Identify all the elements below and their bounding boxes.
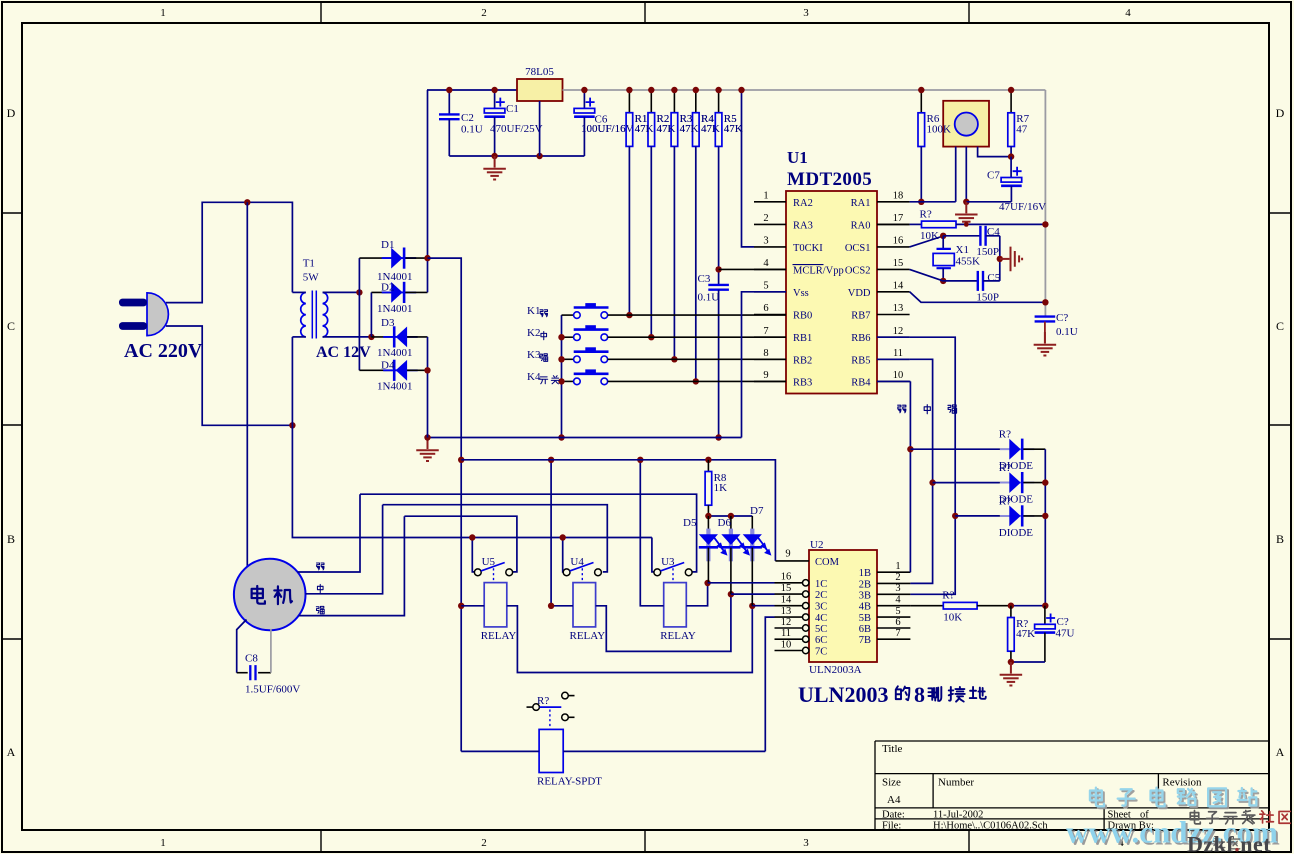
motor 电机 xyxy=(234,559,306,631)
resonator X1 455K xyxy=(937,249,951,268)
capacitor C1 xyxy=(484,98,505,117)
svg-text:47K: 47K xyxy=(657,123,676,135)
wire X1 bottom xyxy=(942,268,944,281)
wire RB5 to 2B xyxy=(910,359,933,583)
wire OCS2 diagonal xyxy=(910,269,944,281)
junction xyxy=(693,87,699,93)
svg-text:VDD: VDD xyxy=(848,288,871,299)
svg-text:K2: K2 xyxy=(527,327,540,339)
wire 78L05 gnd pin xyxy=(539,101,541,156)
svg-text:B: B xyxy=(1276,532,1284,546)
svg-text:6B: 6B xyxy=(859,624,871,635)
svg-text:470UF/25V: 470UF/25V xyxy=(490,123,543,135)
wire D4 cathode xyxy=(359,369,392,371)
wire supply ground rail xyxy=(449,155,584,157)
switch K4 pushbutton xyxy=(562,369,609,384)
capacitor C2 xyxy=(439,114,460,119)
junction xyxy=(424,434,430,440)
capacitor C? 0.1U xyxy=(1035,317,1056,322)
regulator 78L05 xyxy=(517,79,563,101)
U2 pin 7 7B xyxy=(877,638,910,640)
wire D2 anode xyxy=(371,291,391,293)
svg-text:8: 8 xyxy=(763,348,768,359)
svg-text:C?: C? xyxy=(1057,616,1069,628)
switch K1 pushbutton xyxy=(562,303,609,318)
svg-text:Date:: Date: xyxy=(882,810,905,821)
junction xyxy=(558,334,564,340)
ground sensor xyxy=(955,202,978,226)
wire motor low speed xyxy=(298,494,361,572)
junction 3C xyxy=(749,603,755,609)
relay SPDT contact xyxy=(527,692,575,729)
svg-text:14: 14 xyxy=(893,280,904,291)
wire D3 anode xyxy=(407,336,427,338)
junction R2 K2 xyxy=(648,334,654,340)
svg-text:10: 10 xyxy=(893,370,904,381)
junction xyxy=(469,534,475,540)
svg-text:47K: 47K xyxy=(680,123,699,135)
svg-text:47K: 47K xyxy=(1016,628,1035,640)
svg-text:1K: 1K xyxy=(714,482,728,494)
svg-text:5: 5 xyxy=(763,280,768,291)
wire AC live xyxy=(166,202,292,302)
svg-text:5B: 5B xyxy=(859,613,871,624)
wire R3 to K3 row xyxy=(673,146,675,359)
wire AC neutral to contacts xyxy=(292,425,652,537)
relay U4 coil xyxy=(573,583,596,627)
diode D4 1N4001 xyxy=(383,360,418,381)
svg-text:Dzkf.net: Dzkf.net xyxy=(1187,832,1271,854)
svg-text:Title: Title xyxy=(882,743,903,755)
svg-text:RB6: RB6 xyxy=(851,333,870,344)
wire K switches common xyxy=(561,315,563,437)
svg-text:RELAY-SPDT: RELAY-SPDT xyxy=(537,776,602,788)
wire SPDT coil right xyxy=(563,750,765,752)
wire primary bottom down xyxy=(291,337,293,425)
wire bridge vertical A xyxy=(358,258,360,370)
junction xyxy=(581,87,587,93)
svg-text:3: 3 xyxy=(803,7,809,19)
svg-text:C5: C5 xyxy=(987,272,1000,284)
svg-text:ULN2003A: ULN2003A xyxy=(809,664,862,676)
svg-text:6: 6 xyxy=(895,617,900,628)
diode D3 1N4001 xyxy=(383,326,418,347)
wire +5V gray rail xyxy=(563,89,1046,91)
svg-text:47K: 47K xyxy=(724,123,743,135)
driver U2 ULN2003A body xyxy=(809,550,877,662)
wire C7 bottom xyxy=(1010,186,1012,202)
svg-text:11-Jul-2002: 11-Jul-2002 xyxy=(933,810,983,821)
svg-text:R?: R? xyxy=(942,590,954,602)
wire K2 to U1 pin 7 xyxy=(608,336,786,338)
wire U5 coil left xyxy=(461,605,484,607)
wire RB6 to 3B xyxy=(910,337,956,594)
wire VDD xyxy=(910,292,1046,303)
svg-text:C: C xyxy=(1276,319,1284,333)
U1 pin 5 Vss xyxy=(754,291,786,293)
ground oscillator xyxy=(1000,247,1022,272)
svg-text:RB4: RB4 xyxy=(851,377,871,388)
wire X1 top xyxy=(942,236,944,249)
junction secondary top xyxy=(356,289,362,295)
wire secondary bottom xyxy=(323,336,372,338)
svg-text:File:: File: xyxy=(882,821,901,832)
wire D7 cathode xyxy=(751,548,753,606)
junction xyxy=(705,513,711,519)
wire D1 anode xyxy=(359,257,391,259)
svg-text:0.1U: 0.1U xyxy=(1056,326,1078,338)
watermark dzkf xyxy=(1214,839,1240,849)
resistor R2 47K xyxy=(648,113,655,147)
wire 1C xyxy=(708,582,775,584)
resistor R8 1K xyxy=(705,472,712,506)
svg-text:OCS2: OCS2 xyxy=(845,265,871,276)
wire 3C xyxy=(752,605,774,607)
wire motor mid speed xyxy=(306,505,383,594)
title block xyxy=(875,741,1268,829)
wire 12V rail to COM xyxy=(461,460,775,561)
ground U2 bias xyxy=(1000,662,1023,686)
svg-text:47K: 47K xyxy=(635,123,654,135)
junction xyxy=(1008,87,1014,93)
svg-text:5W: 5W xyxy=(303,272,320,284)
svg-text:R?: R? xyxy=(999,462,1011,474)
connector AC plug xyxy=(119,293,168,336)
wire ground rail xyxy=(428,437,742,439)
wire R7 bottom xyxy=(1010,147,1012,157)
wire R4 top xyxy=(695,90,697,113)
wire 4B to R xyxy=(910,605,943,607)
wire osc caps common xyxy=(999,236,1001,281)
svg-text:15: 15 xyxy=(893,258,904,269)
svg-text:5: 5 xyxy=(895,606,900,617)
ground VDD cap xyxy=(1034,332,1057,356)
svg-text:47: 47 xyxy=(1016,123,1028,135)
resistor R? 10K base xyxy=(943,602,977,609)
svg-text:K4: K4 xyxy=(527,371,541,383)
capacitor C? 47U xyxy=(1035,614,1056,633)
U2 pin 11 6C xyxy=(775,638,803,640)
U1 pin 13 RB7 xyxy=(877,314,910,316)
svg-text:D7: D7 xyxy=(750,505,764,517)
svg-text:C3: C3 xyxy=(698,273,711,285)
svg-text:10: 10 xyxy=(781,639,792,650)
svg-text:1: 1 xyxy=(160,7,166,19)
svg-text:B: B xyxy=(7,532,15,546)
capacitor C5 150P xyxy=(978,271,983,291)
svg-text:OCS1: OCS1 xyxy=(845,243,871,254)
svg-text:D2: D2 xyxy=(381,282,394,294)
svg-text:ULN2003: ULN2003 xyxy=(798,682,888,707)
wire Vss to ground rail xyxy=(742,292,787,438)
svg-text:7C: 7C xyxy=(815,647,827,658)
svg-text:RB3: RB3 xyxy=(793,377,812,388)
junction xyxy=(560,534,566,540)
wire motor bottom gray xyxy=(270,629,272,673)
svg-text:U2: U2 xyxy=(810,539,823,551)
wire RA0 stub xyxy=(877,223,910,225)
svg-text:3: 3 xyxy=(803,837,809,849)
wire cap to ground xyxy=(1044,322,1046,344)
wire sensor out xyxy=(955,147,957,202)
junction xyxy=(715,434,721,440)
junction X1 bottom xyxy=(940,278,946,284)
svg-text:6C: 6C xyxy=(815,635,827,646)
svg-text:DIODE: DIODE xyxy=(999,527,1033,539)
wire RB5 stub xyxy=(877,358,910,360)
junction xyxy=(671,87,677,93)
svg-text:1N4001: 1N4001 xyxy=(377,303,412,315)
relay U5 contact xyxy=(474,563,512,583)
junction secondary bottom xyxy=(368,334,374,340)
junction R3 K3 xyxy=(671,356,677,362)
LED D6 xyxy=(721,529,748,562)
junction xyxy=(918,87,924,93)
switch K3 pushbutton xyxy=(562,347,609,362)
U1 pin 15 OCS2 xyxy=(877,268,910,270)
capacitor C7 47UF xyxy=(1001,167,1022,186)
wire 47U bottom xyxy=(1044,633,1046,662)
wire K4 to U1 pin 9 xyxy=(608,380,786,382)
U1 pin 12 RB6 xyxy=(877,336,910,338)
svg-text:1C: 1C xyxy=(815,579,827,590)
svg-text:RB5: RB5 xyxy=(851,355,870,366)
svg-text:RELAY: RELAY xyxy=(481,630,517,642)
wire T0CKI net xyxy=(742,90,755,247)
svg-text:RB7: RB7 xyxy=(851,311,870,322)
svg-text:2: 2 xyxy=(481,837,487,849)
junction xyxy=(637,457,643,463)
U2 pin 9 COM xyxy=(775,560,809,562)
svg-text:U5: U5 xyxy=(482,556,496,568)
wire high speed to U5 contact xyxy=(404,516,517,572)
junction xyxy=(446,87,452,93)
wire RB4 to 1B xyxy=(909,381,911,572)
wire R8 top xyxy=(707,460,709,472)
junction xyxy=(952,513,958,519)
wire 47K top xyxy=(1010,606,1012,618)
svg-text:1: 1 xyxy=(763,190,768,201)
svg-text:D5: D5 xyxy=(683,517,697,529)
svg-text:2C: 2C xyxy=(815,590,827,601)
wire AC live to motor xyxy=(246,202,248,566)
svg-text:1N4001: 1N4001 xyxy=(377,347,412,359)
svg-text:RB0: RB0 xyxy=(793,311,812,322)
U1 pin 14 VDD xyxy=(877,291,910,293)
U1 pin 18 RA1 xyxy=(877,201,910,203)
wire R5 to C3 xyxy=(718,146,720,285)
wire D6 cathode xyxy=(730,548,732,595)
svg-text:3: 3 xyxy=(895,583,900,594)
resistor R7 47 xyxy=(1008,113,1015,147)
capacitor C4 150P xyxy=(980,226,985,246)
wire diode row 3 xyxy=(955,515,999,517)
junction xyxy=(491,87,497,93)
wire 47U top xyxy=(1044,606,1046,625)
junction xyxy=(1008,153,1014,159)
wire R1 top xyxy=(628,90,630,113)
relay U3 coil xyxy=(664,583,687,627)
svg-text:R?: R? xyxy=(999,429,1011,441)
U2 pin 2 2B xyxy=(877,582,910,584)
svg-text:COM: COM xyxy=(815,557,840,568)
wire K1 to U1 pin 6 xyxy=(608,314,786,316)
junction xyxy=(1042,513,1048,519)
junction xyxy=(424,255,430,261)
svg-text:U1: U1 xyxy=(787,148,808,167)
svg-text:1: 1 xyxy=(160,837,166,849)
svg-text:MCLR/Vpp: MCLR/Vpp xyxy=(793,265,844,276)
wire sensor gnd xyxy=(965,147,967,202)
U1 pin 17 RA0 xyxy=(877,223,910,225)
wire D7 anode xyxy=(751,516,753,534)
svg-text:7B: 7B xyxy=(859,635,871,646)
svg-text:D6: D6 xyxy=(718,517,732,529)
U1 pin 1 RA2 xyxy=(754,201,786,203)
svg-text:R?: R? xyxy=(920,209,932,221)
junction xyxy=(458,457,464,463)
junction xyxy=(1042,299,1048,305)
svg-text:8: 8 xyxy=(914,682,925,707)
svg-text:12: 12 xyxy=(781,617,792,628)
wire D1 cathode xyxy=(405,257,427,259)
svg-text:100K: 100K xyxy=(927,123,952,135)
U2 pin 16 1C xyxy=(775,582,803,584)
svg-text:1: 1 xyxy=(895,561,900,572)
wire U4 coil left 12V xyxy=(551,460,573,606)
wire to C5 xyxy=(943,280,978,282)
resistor R6 100K xyxy=(918,113,925,147)
junction xyxy=(1008,603,1014,609)
svg-text:9: 9 xyxy=(763,370,768,381)
wire to C4 xyxy=(943,235,980,237)
resistor R1 47K xyxy=(626,113,633,147)
junction xyxy=(244,199,250,205)
junction xyxy=(548,457,554,463)
svg-text:11: 11 xyxy=(781,628,791,639)
svg-text:U4: U4 xyxy=(570,556,584,568)
U2 pin 4 4B xyxy=(877,605,910,607)
junction xyxy=(558,378,564,384)
diode R? flyback 3 xyxy=(1000,505,1035,526)
U2 pin 12 5C xyxy=(775,627,803,629)
wire U3 coil left 12V xyxy=(640,460,663,606)
svg-text:Size: Size xyxy=(882,777,901,789)
wire RB6 stub xyxy=(877,336,910,338)
svg-text:47U: 47U xyxy=(1056,628,1075,640)
wire sensor gnd to C7 xyxy=(966,201,1011,203)
svg-text:150P: 150P xyxy=(976,246,999,258)
LED D5 xyxy=(699,529,726,562)
U2 pin 13 4C xyxy=(775,616,803,618)
svg-text:C?: C? xyxy=(1056,312,1068,324)
wire secondary top xyxy=(323,291,360,293)
U1 pin 7 RB1 xyxy=(754,336,786,338)
junction 2C xyxy=(728,591,734,597)
svg-text:AC 12V: AC 12V xyxy=(316,344,371,361)
resistor R3 47K xyxy=(671,113,678,147)
wire D3 cathode xyxy=(371,336,392,338)
svg-text:11: 11 xyxy=(893,348,903,359)
junction xyxy=(558,356,564,362)
U2 pin 10 7C xyxy=(775,650,803,652)
junction X1 top xyxy=(940,233,946,239)
U1 pin 8 RB2 xyxy=(754,358,786,360)
U2 pin 14 3C xyxy=(775,605,803,607)
capacitor C6 xyxy=(574,98,595,117)
U2 pin 15 2C xyxy=(775,593,803,595)
resistor R4 47K xyxy=(693,113,700,147)
svg-text:K1: K1 xyxy=(527,305,540,317)
wire bridge vertical B xyxy=(370,292,372,337)
svg-text:12: 12 xyxy=(893,326,904,337)
svg-text:MDT2005: MDT2005 xyxy=(787,169,872,190)
svg-text:RELAY: RELAY xyxy=(660,630,696,642)
wire neutral drop U5 xyxy=(472,538,474,572)
wire neutral drop U4 xyxy=(562,538,565,572)
svg-text:47UF/16V: 47UF/16V xyxy=(999,201,1046,213)
svg-text:4B: 4B xyxy=(859,602,871,613)
svg-text:3B: 3B xyxy=(859,590,871,601)
svg-text:0.1U: 0.1U xyxy=(698,292,720,304)
svg-text:Vss: Vss xyxy=(793,288,809,299)
diode R? flyback 2 xyxy=(1000,472,1035,493)
svg-text:A4: A4 xyxy=(887,794,901,806)
wire 4C to SPDT xyxy=(765,617,774,751)
junction xyxy=(1042,221,1048,227)
U1 pin 11 RB5 xyxy=(877,358,910,360)
svg-text:4: 4 xyxy=(763,258,769,269)
svg-text:RELAY: RELAY xyxy=(570,630,606,642)
label speed nets xyxy=(898,405,906,413)
svg-text:3: 3 xyxy=(763,236,768,247)
junction small xyxy=(964,222,969,227)
resistor R? 10K RA0 xyxy=(922,221,957,228)
svg-text:C1: C1 xyxy=(506,103,519,115)
LED D7 xyxy=(743,529,770,562)
wire R8 bottom xyxy=(707,505,709,516)
svg-text:2B: 2B xyxy=(859,579,871,590)
svg-text:U3: U3 xyxy=(661,556,675,568)
svg-text:D1: D1 xyxy=(381,239,394,251)
svg-text:H:\Home\..\C0106A02.Sch: H:\Home\..\C0106A02.Sch xyxy=(933,821,1048,832)
wire D5 cathode xyxy=(707,548,709,583)
svg-text:A: A xyxy=(1276,745,1285,759)
svg-text:D3: D3 xyxy=(381,317,395,329)
svg-text:D4: D4 xyxy=(381,360,395,372)
switch K2 pushbutton xyxy=(562,325,609,340)
U2 pin 3 3B xyxy=(877,593,910,595)
label speed taps xyxy=(317,563,325,570)
U1 pin 2 RA3 xyxy=(754,223,786,225)
wire RA0 to VDD net xyxy=(956,223,1045,225)
svg-text:Number: Number xyxy=(938,777,974,789)
wire RA1 to sensor xyxy=(910,201,956,203)
svg-text:AC 220V: AC 220V xyxy=(124,340,203,362)
wire +5V gray vertical xyxy=(1044,90,1046,317)
svg-text:18: 18 xyxy=(893,190,904,201)
resistor R5 47K xyxy=(715,113,722,147)
wire MCLR to pin4 xyxy=(719,268,786,270)
U1 pin 3 T0CKI xyxy=(754,246,786,248)
svg-text:7: 7 xyxy=(763,326,768,337)
wire diode row 2 xyxy=(933,482,1000,484)
svg-text:C: C xyxy=(7,319,15,333)
svg-text:K3: K3 xyxy=(527,349,541,361)
wire 2C xyxy=(731,593,775,595)
wire U5 coil to 3C xyxy=(507,606,753,673)
wire OCS1 diagonal xyxy=(910,236,944,247)
